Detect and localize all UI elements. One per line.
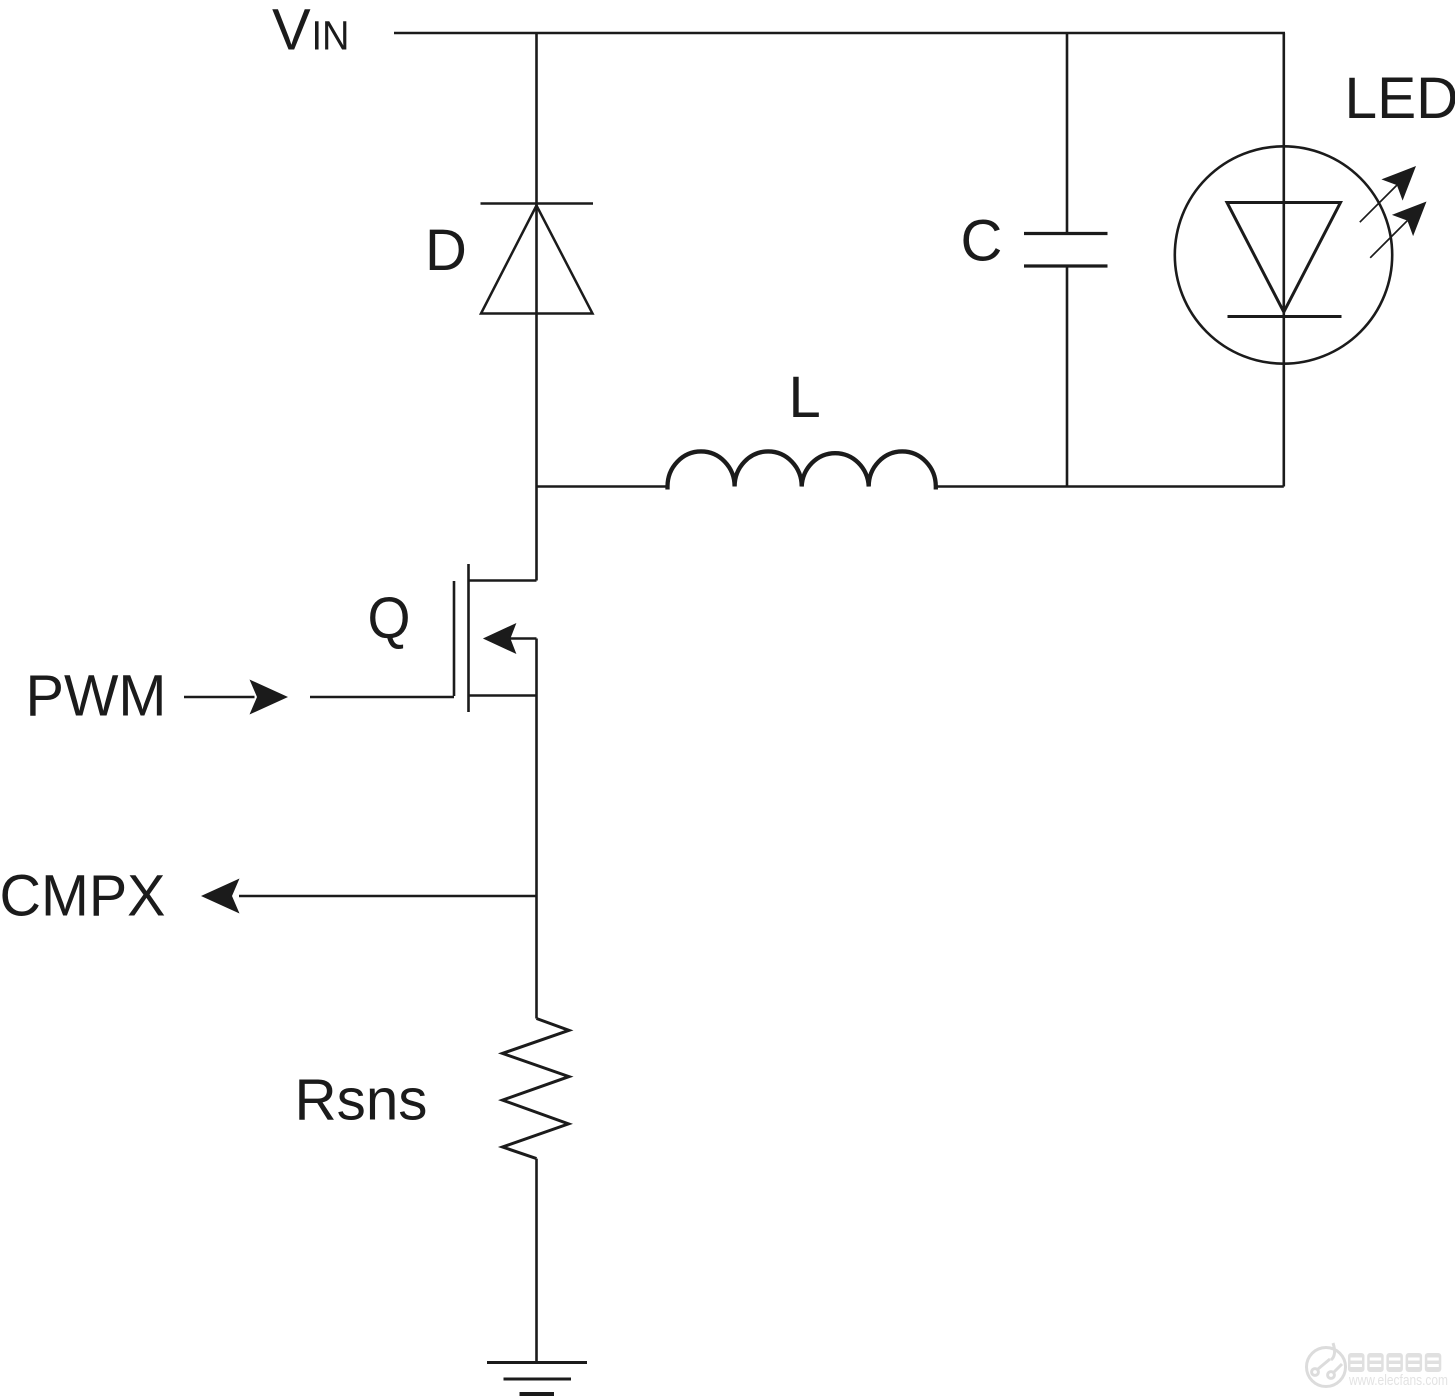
- svg-text:C: C: [961, 209, 1003, 274]
- svg-text:IN: IN: [312, 13, 350, 59]
- svg-text:D: D: [425, 218, 467, 283]
- svg-text:www.elecfans.com: www.elecfans.com: [1348, 1372, 1448, 1389]
- svg-text:Rsns: Rsns: [295, 1068, 428, 1133]
- svg-text:PWM: PWM: [26, 664, 167, 729]
- svg-text:LED: LED: [1345, 66, 1455, 131]
- svg-text:CMPX: CMPX: [0, 864, 166, 929]
- svg-text:L: L: [789, 365, 821, 430]
- svg-text:Q: Q: [368, 586, 411, 651]
- svg-text:V: V: [272, 0, 311, 63]
